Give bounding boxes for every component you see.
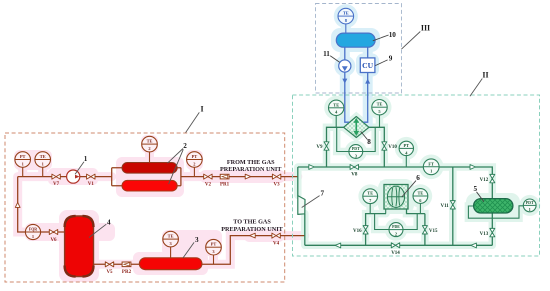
instrument PT3	[213, 255, 215, 264]
label 5 callout	[477, 192, 484, 202]
wire: TE5 stem	[379, 113, 381, 127]
wire: PDT3 loop	[337, 127, 376, 151]
svg-text:TE: TE	[40, 154, 46, 159]
svg-text:I: I	[200, 105, 203, 114]
svg-text:1: 1	[22, 161, 24, 166]
svg-text:V14: V14	[391, 251, 400, 256]
label III callout	[402, 32, 421, 50]
coolant pump 11	[339, 60, 351, 72]
pressure regulator PR1	[220, 174, 229, 179]
wire: TE7 stem	[369, 203, 371, 214]
instrument TE6	[413, 189, 428, 204]
label 1 callout	[75, 162, 84, 175]
valve V5	[105, 262, 113, 267]
svg-text:1: 1	[430, 169, 432, 174]
valve V11	[450, 201, 455, 209]
svg-text:FQR: FQR	[29, 228, 37, 232]
instrument PDT3	[349, 145, 363, 159]
vessel 4 (receiver)	[65, 216, 94, 277]
svg-text:1: 1	[529, 207, 531, 212]
flow arrow left on bottom line near outlet	[335, 243, 341, 248]
svg-text:6: 6	[416, 174, 420, 182]
heat exchanger 2 right manifold	[176, 168, 181, 186]
wire: element 6 left leg	[385, 209, 387, 214]
coolant flow arrow down	[342, 79, 347, 84]
wire: green left vertical upper	[297, 167, 299, 196]
flow arrow right on top line before element 5	[470, 165, 476, 170]
dashed border box III (cooling unit)	[316, 4, 402, 94]
label 4 callout	[89, 224, 106, 237]
valve V13	[490, 228, 495, 236]
dashed border box I (gas preparation unit)	[5, 133, 285, 282]
svg-text:8: 8	[367, 138, 371, 146]
valve V15	[422, 226, 427, 234]
svg-text:TO THE GAS: TO THE GAS	[233, 219, 271, 226]
wire: PT4 stem	[405, 155, 407, 167]
valve V7	[52, 174, 60, 179]
svg-text:PR2: PR2	[122, 270, 132, 275]
wire: V16 riser	[366, 214, 386, 246]
label 7 callout	[302, 196, 320, 208]
svg-text:V3: V3	[274, 182, 281, 187]
instrument TE1	[42, 167, 44, 176]
valve V9	[324, 142, 329, 150]
flow arrow left on bottom line right part	[471, 243, 477, 248]
valve V4	[272, 233, 280, 238]
label 11 callout	[330, 56, 339, 63]
wire: HX8 branch left riser with V9	[327, 127, 344, 167]
wire: TE4 stem	[335, 114, 337, 128]
svg-text:TE: TE	[343, 11, 349, 16]
svg-text:9: 9	[389, 55, 393, 63]
svg-text:V15: V15	[429, 229, 438, 234]
svg-text:TE: TE	[367, 191, 373, 196]
svg-text:V6: V6	[50, 238, 57, 243]
wire: red main top pipe right run	[181, 176, 298, 178]
flow arrow up on left vertical	[15, 202, 20, 207]
instrument PT2	[193, 167, 195, 176]
svg-text:FT: FT	[428, 161, 434, 166]
instrument FT1 (inline)	[423, 159, 439, 175]
element 7 transition piece	[298, 196, 305, 215]
svg-text:11: 11	[323, 50, 330, 58]
control unit CU 9	[360, 58, 375, 73]
svg-text:PR1: PR1	[220, 182, 230, 187]
heat exchanger 2 top tube	[122, 163, 177, 174]
svg-text:10: 10	[389, 31, 397, 39]
svg-text:V4: V4	[273, 241, 280, 246]
element 5 filter capsule	[474, 199, 513, 213]
svg-text:CU: CU	[362, 61, 373, 70]
svg-text:II: II	[482, 71, 488, 80]
svg-text:V8: V8	[351, 173, 358, 178]
valve V6	[49, 230, 57, 235]
svg-text:PREPARATION UNIT: PREPARATION UNIT	[221, 226, 283, 233]
svg-text:V2: V2	[205, 182, 212, 187]
svg-text:3: 3	[195, 236, 199, 244]
svg-text:V1: V1	[88, 182, 95, 187]
wire: green left vertical lower	[304, 214, 306, 246]
valve V1	[87, 174, 95, 179]
pump 1	[67, 170, 80, 183]
svg-text:PREPARATION UNIT: PREPARATION UNIT	[220, 166, 282, 173]
dashed border box II (test unit)	[293, 95, 540, 256]
svg-text:1: 1	[84, 155, 88, 163]
valve V16	[363, 226, 368, 234]
instrument TE8	[338, 8, 354, 24]
svg-text:7: 7	[321, 190, 325, 198]
pressure regulator PR2	[122, 262, 131, 267]
svg-text:PDE: PDE	[392, 225, 400, 229]
label 8 callout	[361, 131, 368, 139]
glow green pipes	[298, 113, 524, 245]
svg-text:1: 1	[42, 161, 44, 166]
instrument TE2	[149, 152, 151, 163]
svg-text:V5: V5	[106, 270, 113, 275]
svg-text:III: III	[421, 24, 430, 33]
label 3 callout	[183, 242, 194, 257]
svg-text:V16: V16	[353, 229, 362, 234]
valve V10	[382, 142, 387, 150]
svg-text:V9: V9	[316, 145, 323, 150]
svg-text:TE: TE	[147, 139, 153, 144]
instrument TE3	[170, 247, 172, 258]
glow blue pipes	[336, 12, 375, 124]
svg-text:V7: V7	[53, 182, 60, 187]
wire: PDE2 loop	[375, 214, 418, 230]
label 10 callout	[373, 35, 389, 41]
svg-text:2: 2	[183, 142, 187, 150]
svg-text:PT: PT	[20, 154, 26, 159]
valve V3	[272, 174, 280, 179]
wire: element 6 right leg and run to V15	[407, 209, 425, 245]
wire: green main top line	[298, 167, 493, 199]
label 2 callouts	[167, 149, 183, 185]
wire: TE8 stem	[345, 24, 347, 33]
wire: green bottom return line	[305, 244, 493, 246]
wire: red left vertical and lower run to vessel 4	[18, 177, 65, 232]
vessel 3 (horizontal receiver)	[139, 258, 202, 270]
svg-text:TE: TE	[417, 191, 423, 196]
valve V12	[490, 174, 495, 182]
heat exchanger 2 left manifold	[112, 168, 123, 186]
valve V2	[204, 174, 212, 179]
glow red pipes	[18, 150, 305, 264]
svg-text:TE: TE	[168, 234, 174, 239]
instrument TE7	[363, 189, 378, 204]
svg-text:2: 2	[193, 161, 195, 166]
coolant tank 10	[336, 33, 375, 47]
wire: vessel 3 outlet run to green unit	[202, 236, 305, 265]
svg-text:2: 2	[395, 231, 397, 236]
instrument PDT1	[523, 199, 536, 212]
svg-text:FROM THE GAS: FROM THE GAS	[227, 159, 275, 166]
instrument TE5	[372, 100, 387, 115]
flow arrow right before V3	[245, 174, 251, 179]
svg-text:4: 4	[107, 218, 111, 226]
wire: PDT1 loop around element 5	[468, 206, 523, 218]
coolant flow arrow up	[365, 79, 370, 84]
valve V14	[391, 243, 399, 248]
svg-text:PT: PT	[211, 242, 217, 247]
instrument FQR1 (inline flow meter)	[25, 224, 40, 239]
instrument PT1	[22, 167, 24, 176]
element 6 test section	[384, 185, 408, 210]
svg-text:PDT: PDT	[352, 147, 360, 151]
glow red vessels	[14, 135, 285, 282]
flow arrow right on top line near inlet	[309, 165, 315, 170]
svg-text:1: 1	[32, 234, 34, 239]
heat exchanger 8 diamond	[344, 117, 369, 138]
wire: vessel 4 outlet run	[94, 263, 140, 265]
label II callout	[470, 79, 482, 97]
svg-text:V11: V11	[440, 204, 449, 209]
svg-text:PT: PT	[403, 143, 409, 148]
svg-text:V12: V12	[480, 178, 489, 183]
svg-text:V13: V13	[480, 232, 489, 237]
valve V8	[350, 165, 358, 170]
instrument TE4	[329, 100, 344, 115]
label 9 callout	[375, 60, 387, 66]
wire: TE6 stem	[419, 203, 421, 214]
svg-text:2: 2	[148, 146, 150, 151]
instrument PT4	[399, 141, 413, 155]
wire: element 5 lower drop	[491, 213, 493, 245]
wire: HX8 branch right riser with V10	[369, 127, 384, 167]
svg-text:TE: TE	[333, 102, 339, 107]
heat exchanger 2 bottom tube	[122, 180, 177, 191]
instrument PDE2	[389, 223, 403, 237]
svg-text:TE: TE	[377, 102, 383, 107]
svg-text:V10: V10	[388, 145, 397, 150]
svg-text:PDT: PDT	[526, 201, 534, 205]
label I callout	[186, 112, 200, 132]
wire: blue right coolant line	[364, 47, 368, 122]
svg-text:PT: PT	[192, 154, 198, 159]
label 6 callout	[402, 181, 416, 197]
svg-text:5: 5	[474, 185, 478, 193]
flow arrow left on return line	[250, 233, 256, 238]
wire: V11 bypass line	[452, 167, 454, 245]
wire: blue left coolant line	[345, 47, 349, 122]
wire: red main top pipe left run	[18, 176, 112, 178]
